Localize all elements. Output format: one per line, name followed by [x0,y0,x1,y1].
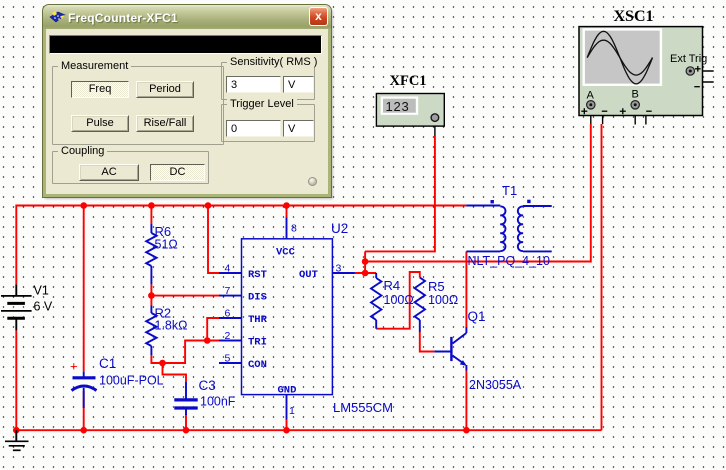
svg-text:VCC: VCC [276,247,296,259]
svg-text:GND: GND [278,385,297,397]
svg-text:7: 7 [225,285,231,297]
svg-text:OUT: OUT [299,269,318,281]
transistor Q1 2N3055A [434,309,521,392]
battery V1 [1,284,53,331]
svg-text:1.8kΩ: 1.8kΩ [155,319,188,333]
wire C1 branch [83,206,85,431]
svg-text:6 V: 6 V [34,300,53,314]
svg-text:DIS: DIS [248,292,267,304]
wire ground bottom rail [16,330,601,430]
svg-text:Q1: Q1 [468,309,486,324]
svg-text:R4: R4 [384,278,401,293]
svg-text:R5: R5 [428,279,445,294]
svg-text:RST: RST [248,269,267,281]
svg-text:THR: THR [248,314,268,326]
wire R6 bottom to R2 and DIS [151,284,220,305]
svg-text:V1: V1 [34,284,49,298]
wire OUT to scope A [365,124,591,262]
svg-text:+: + [70,359,78,374]
svg-text:100uF-POL: 100uF-POL [99,374,164,388]
svg-text:2N3055A: 2N3055A [469,378,522,392]
wire R5 bottom to Q1 base [420,332,435,352]
wire R2 bottom node [151,341,220,364]
resistor R6 51ohm [146,224,178,284]
svg-text:51Ω: 51Ω [155,238,178,252]
svg-text:100Ω: 100Ω [428,293,458,307]
U2 labels [331,221,393,415]
resistor R4 100ohm [371,273,414,329]
wire VCC pin stub [286,206,288,218]
svg-text:B: B [632,89,639,101]
svg-text:U2: U2 [331,221,348,236]
svg-text:XSC1: XSC1 [614,8,654,25]
svg-text:CON: CON [248,359,267,371]
svg-text:C3: C3 [199,378,216,393]
wire RST riser [208,206,219,274]
IC U2 LM555CM box [242,239,333,395]
wire R6 top [150,206,152,225]
svg-text:8: 8 [291,223,297,235]
svg-text:1: 1 [289,405,295,417]
svg-text:2: 2 [225,330,231,342]
svg-text:100nF: 100nF [200,395,236,409]
wire to C3 [163,363,187,430]
wire R4 bottom to R5 top [376,272,420,329]
wire T1 primary to Q1 collector [465,251,467,327]
wire XFC1 drop [365,136,435,251]
svg-text:LM555CM: LM555CM [333,400,393,415]
wire Q1 emitter to ground rail [465,371,467,431]
wire OUT node [355,251,376,273]
svg-text:5: 5 [225,353,231,365]
wire GND pin to rail [286,420,288,431]
resistor R2 1.8kohm [146,306,187,356]
instrument XFC1 frequency counter [376,73,444,136]
svg-text:123: 123 [386,99,410,114]
wire VCC top rail [16,206,466,285]
resistor R5 100ohm [415,278,459,333]
multisim icon [49,10,67,26]
svg-text:Ext Trig: Ext Trig [670,53,707,65]
svg-text:NLT_PQ_4_10: NLT_PQ_4_10 [468,254,551,268]
svg-text:6: 6 [225,308,231,320]
U2 pin numbers [225,223,342,418]
instrument XSC1 oscilloscope [579,8,714,125]
transformer T1 NLT_PQ_4_10 [466,183,551,268]
capacitor C3 100nF [174,378,236,415]
svg-text:100Ω: 100Ω [384,293,414,307]
wire THR link [207,318,220,341]
instrument window FreqCounter-XFC1 [43,5,331,197]
svg-text:C1: C1 [99,356,116,371]
svg-text:XFC1: XFC1 [390,73,427,89]
U2 pin stubs [219,218,355,420]
svg-text:TRI: TRI [248,337,267,349]
svg-text:T1: T1 [502,183,517,198]
svg-text:4: 4 [225,263,231,275]
U2 pin names [248,247,318,397]
svg-text:A: A [587,90,595,102]
capacitor C1 100uF-POL [70,356,164,408]
wire scope A minus to ground rail [601,124,603,430]
svg-text:3: 3 [336,263,342,275]
ground [5,430,29,450]
